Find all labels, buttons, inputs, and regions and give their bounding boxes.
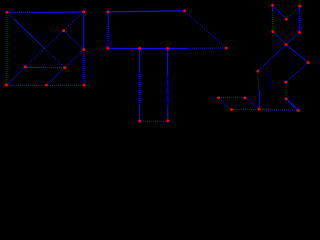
node T3 bbox=[285, 18, 288, 21]
node H bbox=[83, 84, 86, 87]
wire T5-X (dense) bbox=[286, 32, 299, 44]
node T4 bbox=[271, 30, 274, 33]
wire T4-X (dense) bbox=[273, 32, 286, 45]
wire M4-M7 stem left dotted bbox=[139, 72, 141, 104]
wire T1-T3 (dense) bbox=[273, 5, 287, 19]
wire M1-M3 crossbar left solid part bbox=[107, 12, 109, 26]
wire M1-M3 crossbar left dotted part bbox=[107, 26, 109, 48]
wire M5-M6 crossbar bottom 3 dotted part bbox=[188, 47, 226, 49]
node V bbox=[256, 70, 259, 73]
wire M5-M8 stem right solid2 bbox=[167, 106, 169, 121]
node C bbox=[62, 29, 65, 32]
wire B-D upper right edge (solid) bbox=[83, 12, 85, 50]
wire V-N4 dotted part bbox=[257, 71, 260, 90]
wire I-G (dense chain) bbox=[47, 68, 65, 85]
node I bbox=[63, 66, 66, 69]
node M6 bbox=[225, 47, 228, 50]
wire X-B5 (solid) bbox=[286, 45, 308, 63]
wire G-H bottom-right edge bbox=[48, 84, 83, 86]
node T2 bbox=[298, 5, 301, 8]
wire C-E anti-diagonal middle bbox=[25, 31, 63, 67]
wire N2-N4 bbox=[233, 108, 258, 110]
node N7 bbox=[284, 81, 287, 84]
node B bbox=[82, 10, 85, 13]
node M5 bbox=[166, 47, 169, 50]
wire A-I diagonal dotted tail bbox=[45, 48, 65, 67]
wire V-N4 solid part bbox=[258, 90, 260, 109]
node M3 bbox=[106, 47, 109, 50]
wire T1-T4 dotted bbox=[272, 11, 274, 32]
wire M2-M6 crossbar slant bbox=[185, 11, 227, 48]
node M1 bbox=[106, 10, 109, 13]
wire T2-T5 solid head bbox=[299, 6, 301, 10]
node T1 bbox=[271, 4, 274, 7]
wire N1-N2 bbox=[219, 98, 232, 110]
wire M3-M4 crossbar bottom 1 (solid) bbox=[108, 47, 140, 49]
node N6 bbox=[297, 109, 300, 112]
node N2 bbox=[230, 108, 233, 111]
wire N1-N3 bbox=[219, 96, 245, 98]
wire M7-M8 stem bottom bbox=[141, 120, 167, 122]
wire T2-T3 bbox=[286, 6, 299, 19]
wire N7-B5 bbox=[286, 63, 308, 83]
node G bbox=[45, 84, 48, 87]
node M4 bbox=[138, 47, 141, 50]
node A bbox=[5, 11, 8, 14]
wire E-F anti-diagonal lower (dense) bbox=[7, 67, 26, 85]
wire M4-M5 crossbar bottom 2 (solid) bbox=[140, 47, 168, 49]
wire T2-T5 dotted bbox=[299, 10, 301, 32]
node M2 bbox=[183, 9, 186, 12]
node N4 bbox=[258, 108, 261, 111]
node X bbox=[285, 43, 288, 46]
wire A-I diagonal solid middle bbox=[14, 19, 45, 48]
wire N4-N6 bbox=[260, 109, 298, 112]
wire E-I solid part bbox=[25, 66, 41, 68]
node F bbox=[5, 84, 8, 87]
node D bbox=[82, 48, 85, 51]
wire N7-N5 bbox=[285, 83, 287, 98]
wire N3-N4 (dense) bbox=[245, 98, 259, 109]
node N5 bbox=[285, 97, 288, 100]
wire N5-N6 (thick solid) bbox=[286, 99, 298, 111]
wire D-H lower right edge bbox=[83, 50, 85, 84]
node T5 bbox=[298, 31, 301, 34]
wire F-G bottom-left edge bbox=[8, 84, 46, 86]
node M7 bbox=[138, 120, 141, 123]
wire B-C anti-diagonal upper bbox=[64, 12, 84, 31]
wire A-B top edge dotted part bbox=[7, 11, 31, 13]
node M8 bbox=[166, 119, 169, 122]
wire A-B top edge solid part bbox=[31, 11, 84, 13]
wire M1-M2 crossbar top (solid) bbox=[108, 11, 185, 12]
node E bbox=[24, 65, 27, 68]
wire E-I dotted part bbox=[41, 66, 65, 68]
wire A-I diagonal dotted head bbox=[7, 12, 14, 19]
wire M4-M7 stem left solid1 bbox=[139, 48, 141, 72]
wire T1-T4 solid head bbox=[272, 5, 274, 11]
wire A-F left edge bbox=[6, 13, 8, 84]
wire D-I bbox=[65, 50, 84, 68]
node N1 bbox=[217, 96, 220, 99]
wire M4-M7 stem left solid2 bbox=[139, 104, 141, 121]
wire C-D bbox=[64, 31, 84, 50]
wire M5-M8 stem right dotted bbox=[167, 74, 169, 106]
node B5 bbox=[307, 61, 310, 64]
wire X-V (dense dotted) bbox=[258, 45, 286, 72]
node N3 bbox=[244, 96, 247, 99]
wire M5-M8 stem right solid1 bbox=[167, 48, 169, 74]
wire M5-M6 crossbar bottom 3 solid part bbox=[168, 47, 188, 49]
